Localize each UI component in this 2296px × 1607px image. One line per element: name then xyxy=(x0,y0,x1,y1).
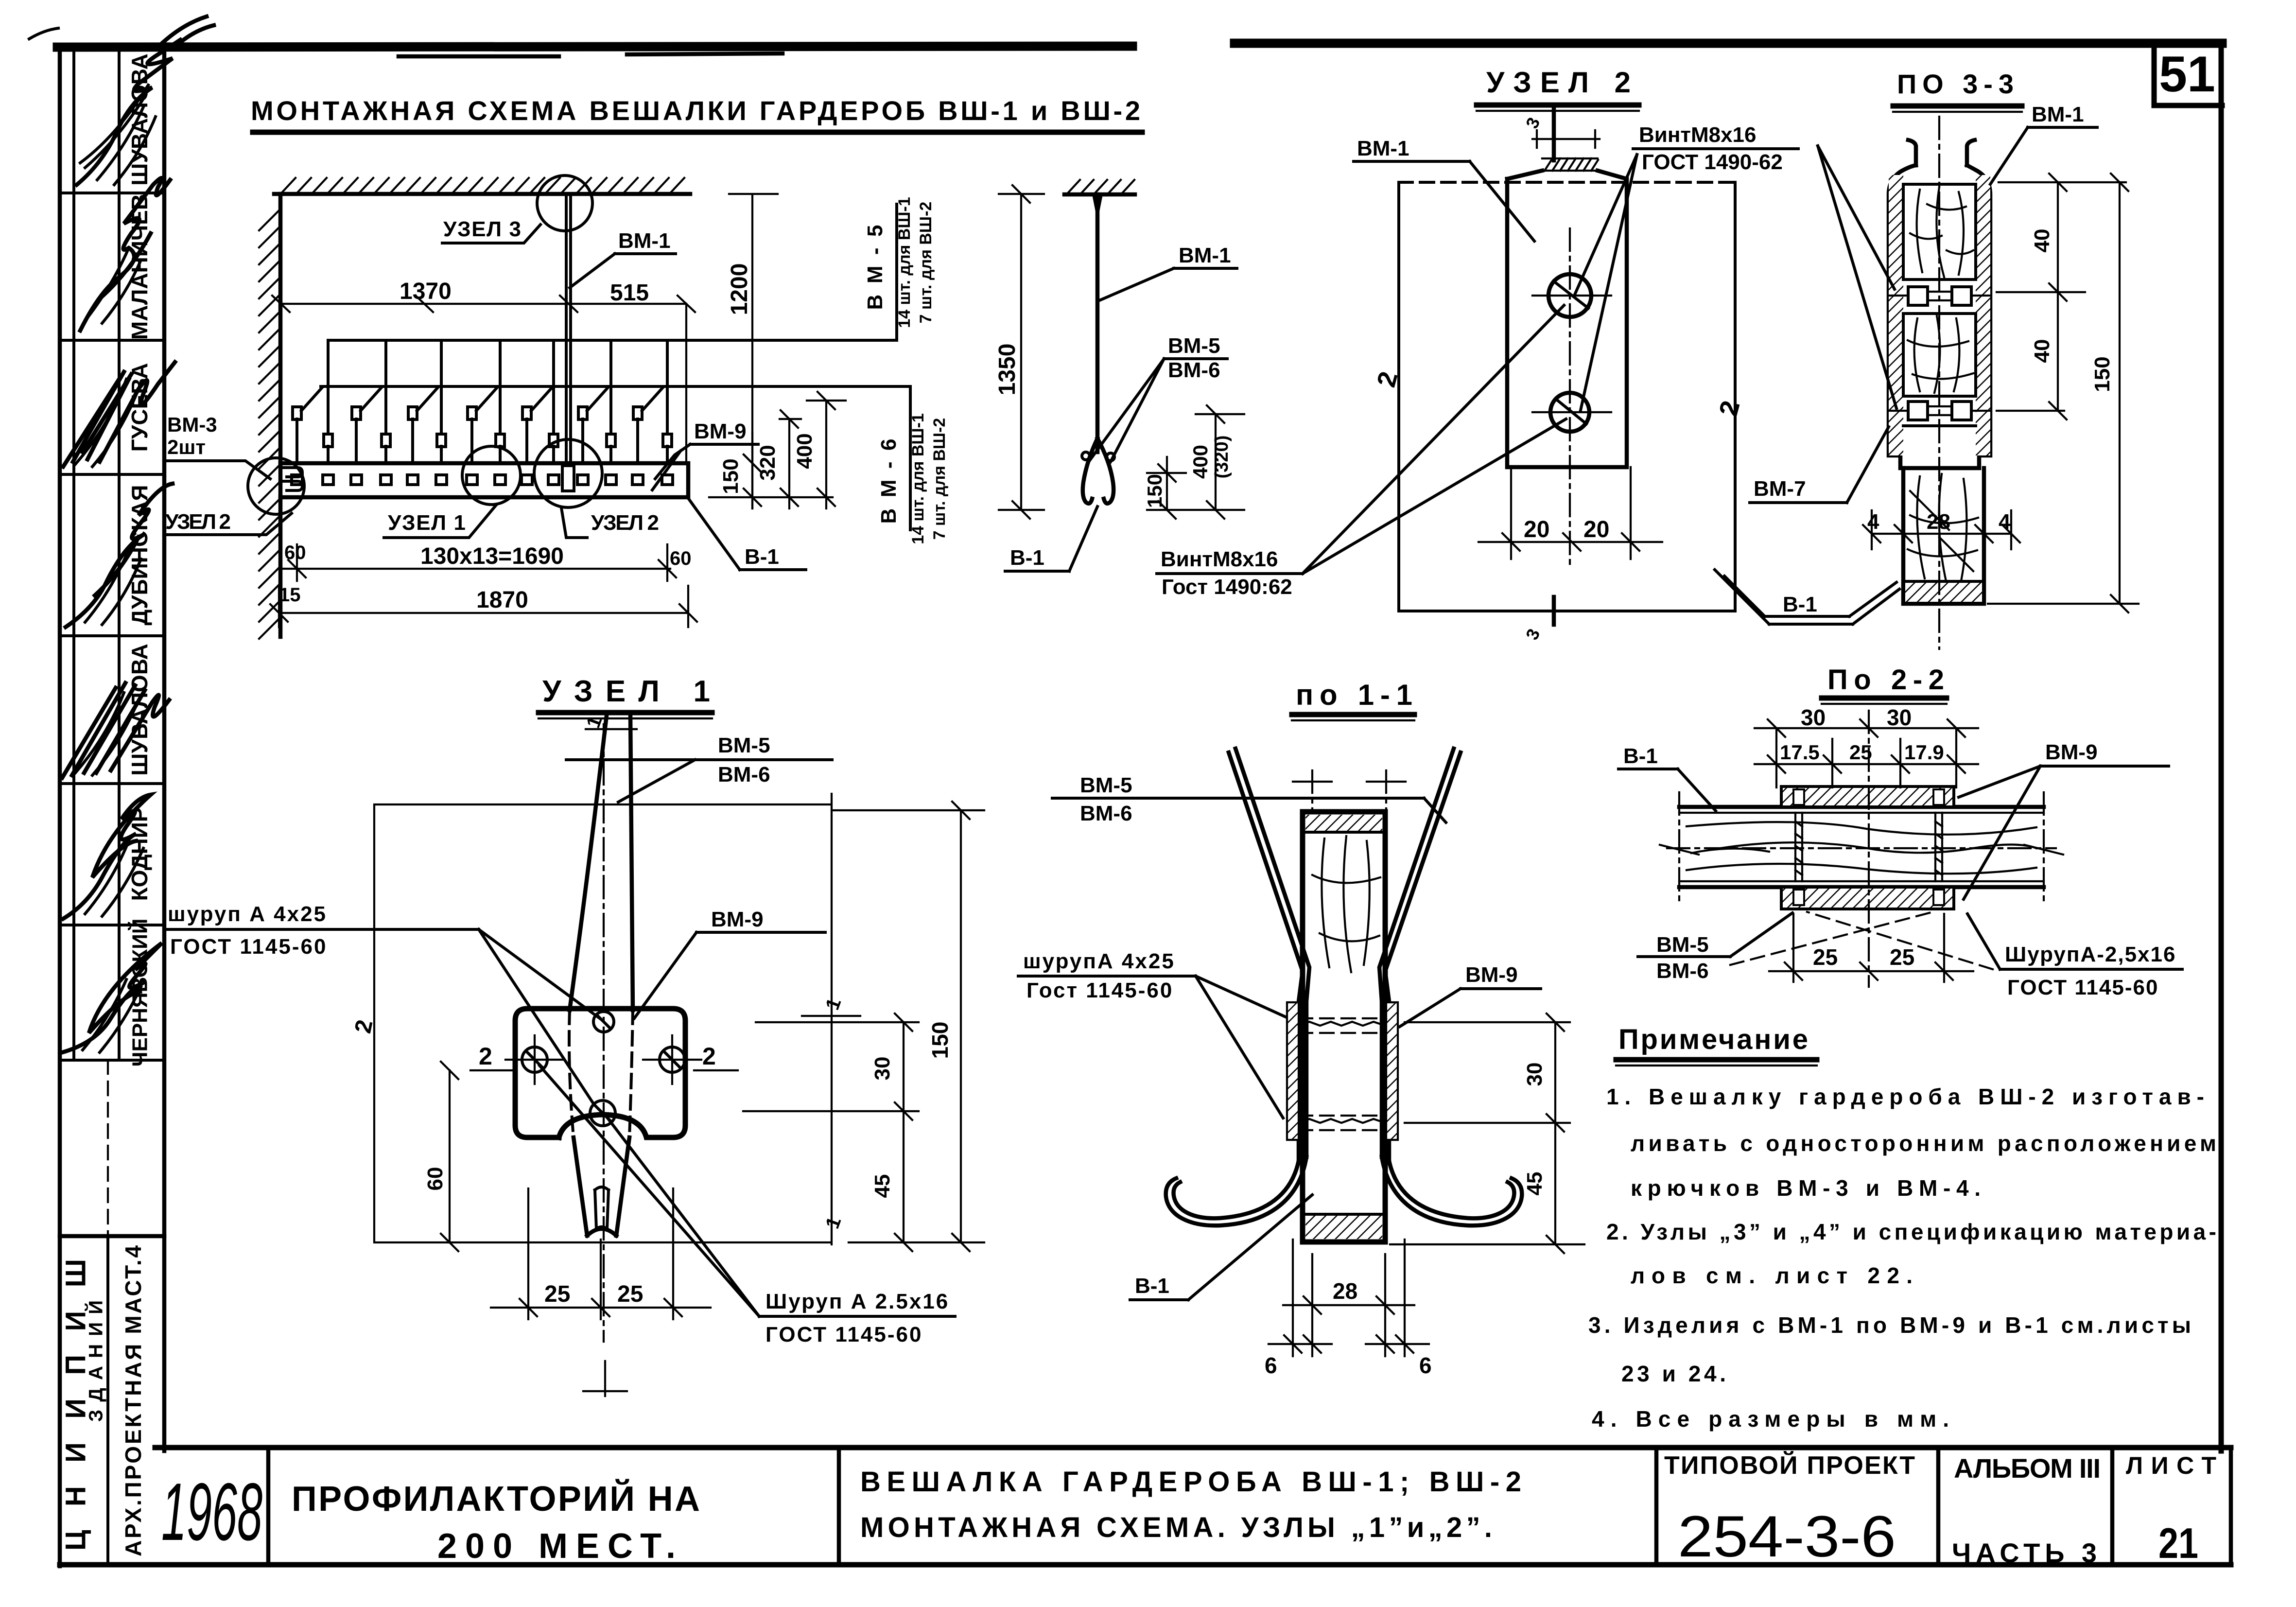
joint 1 with VM-7 bracket xyxy=(1889,279,1990,314)
svg-text:ливать с односторонним распол: ливать с односторонним расположением xyxy=(1631,1131,2216,1156)
svg-text:40: 40 xyxy=(2030,339,2054,363)
svg-text:30: 30 xyxy=(1523,1063,1547,1086)
dim 4/28/4 (po3-3) xyxy=(1863,496,2020,549)
leaders from shurup2.5 to plate screws xyxy=(539,1066,759,1316)
top plate VM-9 (hatched) xyxy=(1781,786,1954,807)
svg-text:УЗЕЛ 2: УЗЕЛ 2 xyxy=(165,510,231,534)
rotated label VM-5 quantity (right) xyxy=(863,197,935,328)
stray signature strokes top-left xyxy=(160,17,214,45)
svg-text:ВМ-1: ВМ-1 xyxy=(2032,103,2084,126)
signature row6 xyxy=(85,841,143,916)
svg-text:ВМ-5: ВМ-5 xyxy=(1168,334,1220,358)
svg-text:20: 20 xyxy=(1524,517,1549,542)
svg-text:25: 25 xyxy=(544,1281,570,1307)
svg-text:150: 150 xyxy=(719,458,743,494)
svg-text:400: 400 xyxy=(793,433,817,469)
hook slots in rail xyxy=(292,475,673,485)
dim 1870 xyxy=(270,586,697,627)
svg-text:17.9: 17.9 xyxy=(1904,741,1944,764)
diagonal ticks tall hooks to bus xyxy=(301,387,663,411)
channel wall hatch right xyxy=(1976,175,1990,455)
rail bottom hatched cap xyxy=(1305,1214,1382,1239)
svg-text:ВМ-5: ВМ-5 xyxy=(718,734,770,757)
svg-text:шуруп А 4х25: шуруп А 4х25 xyxy=(168,902,327,926)
signature row5 xyxy=(75,693,139,775)
svg-text:60: 60 xyxy=(284,542,306,563)
svg-text:ВМ-6: ВМ-6 xyxy=(718,763,770,786)
signature row1 xyxy=(97,107,156,185)
top section tick xyxy=(586,728,637,730)
svg-text:ВМ-1: ВМ-1 xyxy=(1357,137,1409,160)
svg-text:25: 25 xyxy=(617,1281,643,1307)
screw slots in plates xyxy=(1793,789,1944,905)
svg-text:28: 28 xyxy=(1333,1278,1357,1304)
svg-text:1350: 1350 xyxy=(994,344,1020,396)
svg-text:2: 2 xyxy=(702,1043,716,1070)
svg-text:1370: 1370 xyxy=(400,279,452,304)
hook blade outline xyxy=(570,716,633,1010)
svg-text:ГОСТ 1145-60: ГОСТ 1145-60 xyxy=(170,935,327,959)
svg-text:6: 6 xyxy=(1265,1353,1277,1378)
signature row7 xyxy=(83,979,141,1052)
svg-text:14 шт. для ВШ-1: 14 шт. для ВШ-1 xyxy=(909,413,927,544)
VM-9 plate strips in section xyxy=(1287,1002,1299,1140)
dim 515 xyxy=(568,304,686,462)
svg-text:ВМ-1: ВМ-1 xyxy=(618,229,671,253)
svg-text:АРХ.ПРОЕКТНАЯ МАСТ.4: АРХ.ПРОЕКТНАЯ МАСТ.4 xyxy=(121,1245,146,1556)
svg-text:25: 25 xyxy=(1849,741,1872,764)
svg-text:ТИПОВОЙ ПРОЕКТ: ТИПОВОЙ ПРОЕКТ xyxy=(1664,1451,1915,1480)
dim 1370 xyxy=(280,303,568,305)
ceiling hatch (rod view) xyxy=(1064,192,1135,197)
svg-text:2шт: 2шт xyxy=(167,436,206,458)
tall hooks VM-6 (heads) xyxy=(293,407,642,463)
svg-text:25: 25 xyxy=(1813,944,1838,970)
svg-text:150: 150 xyxy=(2090,356,2114,392)
svg-text:17.5: 17.5 xyxy=(1780,741,1820,764)
svg-text:крючков ВМ-3 и ВМ-4.: крючков ВМ-3 и ВМ-4. xyxy=(1631,1175,1981,1201)
dim 30 / 45 / 150 right side (uzel1) xyxy=(743,1013,984,1251)
svg-text:Гост 1490:62: Гост 1490:62 xyxy=(1162,575,1292,599)
section ticks above rail xyxy=(1312,770,1386,811)
dim 25/25 (uzel1) xyxy=(491,1188,711,1319)
svg-text:60: 60 xyxy=(670,548,692,569)
svg-text:(320): (320) xyxy=(1212,436,1232,479)
suspension rod VM-1 xyxy=(566,194,571,463)
short hooks VM-5 (heads) xyxy=(324,434,672,463)
centerline vertical po2-2 xyxy=(1868,711,1870,987)
svg-text:ВМ-9: ВМ-9 xyxy=(694,419,747,443)
svg-text:ВМ-6: ВМ-6 xyxy=(1656,959,1709,983)
dim 30/45 right (po1-1) xyxy=(1390,1013,1584,1253)
bracket plate VM-9 xyxy=(515,1009,685,1137)
sheet top border line xyxy=(57,43,2222,56)
bottom hatch cap xyxy=(1905,581,1982,602)
bottom line uzel2 xyxy=(1399,610,1735,612)
svg-text:ВМ-5: ВМ-5 xyxy=(1656,933,1709,957)
right hook arm xyxy=(1382,1157,1522,1225)
svg-text:1200: 1200 xyxy=(727,263,752,315)
svg-text:150: 150 xyxy=(927,1022,953,1059)
svg-text:УЗЕЛ 3: УЗЕЛ 3 xyxy=(443,217,521,241)
svg-text:130х13=1690: 130х13=1690 xyxy=(420,543,564,569)
section end ticks po2-2 xyxy=(1679,792,2044,902)
sheet right frame xyxy=(2219,43,2224,1451)
svg-text:15: 15 xyxy=(279,584,301,606)
dim 130x13=1690 xyxy=(283,544,676,581)
dim 1200 vertical xyxy=(729,194,778,508)
svg-text:ВинтМ8х16: ВинтМ8х16 xyxy=(1161,547,1278,571)
svg-text:ШурупА-2,5х16: ШурупА-2,5х16 xyxy=(2005,943,2176,966)
svg-text:ВМ-9: ВМ-9 xyxy=(1465,963,1518,987)
dim 25/25 bottom (po2-2) xyxy=(1769,914,1973,982)
screw lower (circle with slot) xyxy=(1550,393,1589,432)
dim 17.5/25/17.9 (po2-2) xyxy=(1755,739,1978,787)
svg-text:ВМ-9: ВМ-9 xyxy=(2045,740,2098,764)
svg-text:ГОСТ 1490-62: ГОСТ 1490-62 xyxy=(1642,150,1783,174)
plate centerline xyxy=(1569,228,1571,564)
svg-text:23 и 24.: 23 и 24. xyxy=(1621,1361,1726,1386)
leaders from bottom vint text to screws xyxy=(1303,305,1566,574)
top neck of profile xyxy=(1908,140,1975,165)
leader bus VM-5 xyxy=(328,204,897,340)
svg-text:ВинтМ8х16: ВинтМ8х16 xyxy=(1639,123,1756,147)
svg-text:6: 6 xyxy=(1419,1353,1432,1378)
reference frame uzel1 xyxy=(374,794,832,1244)
section 1 marks on right frame xyxy=(802,1015,860,1017)
right blade VM-6 xyxy=(1379,749,1461,1161)
dim 400(320) (rod) xyxy=(1147,405,1244,519)
section line 2 left xyxy=(1397,182,1400,611)
wall bracket shape in rail left end xyxy=(280,468,302,490)
ceiling line xyxy=(274,192,690,196)
svg-text:ВМ-9: ВМ-9 xyxy=(711,908,764,931)
svg-text:АЛЬБОМ III: АЛЬБОМ III xyxy=(1954,1453,2101,1484)
svg-text:60: 60 xyxy=(423,1167,447,1191)
leaders to screws xyxy=(479,929,602,1104)
svg-text:25: 25 xyxy=(1890,944,1914,970)
hook tip with slot xyxy=(587,1229,616,1236)
circle node Uzel2 mid xyxy=(534,439,602,507)
dim 150 (po3-3) xyxy=(1988,174,2139,612)
svg-text:150: 150 xyxy=(1143,474,1166,508)
leader bus VM-6 xyxy=(321,386,910,530)
svg-text:1968: 1968 xyxy=(161,1466,262,1557)
section line 2 right xyxy=(1734,182,1737,611)
svg-text:Шуруп А 2.5х16: Шуруп А 2.5х16 xyxy=(765,1290,949,1313)
svg-text:1870: 1870 xyxy=(476,587,528,613)
svg-text:45: 45 xyxy=(870,1174,894,1198)
rod attach slot xyxy=(562,466,574,491)
screws through rail (dashed) xyxy=(1299,1018,1386,1130)
signature row3 xyxy=(75,379,139,467)
dim 150 (rod) xyxy=(1147,457,1186,519)
svg-text:ПРОФИЛАКТОРИЙ НА: ПРОФИЛАКТОРИЙ НА xyxy=(292,1479,700,1519)
section mark 1 bottom xyxy=(583,1361,627,1396)
svg-text:20: 20 xyxy=(1583,517,1609,542)
svg-text:515: 515 xyxy=(610,280,649,306)
svg-text:шурупА 4х25: шурупА 4х25 xyxy=(1023,949,1175,973)
svg-text:МОНТАЖНАЯ СХЕМА ВЕШАЛКИ ГАР: МОНТАЖНАЯ СХЕМА ВЕШАЛКИ ГАРДЕРОБ ВШ-1 и … xyxy=(251,95,1140,126)
svg-text:2. Узлы „3” и „4” и спецификац: 2. Узлы „3” и „4” и спецификацию материа… xyxy=(1606,1219,2216,1244)
plate screws xyxy=(593,1012,614,1032)
svg-text:ВМ-1: ВМ-1 xyxy=(1179,244,1231,267)
svg-text:400: 400 xyxy=(1189,445,1212,479)
wall line xyxy=(278,194,283,637)
screw centerlines xyxy=(505,1035,701,1084)
svg-text:30: 30 xyxy=(1887,705,1912,730)
svg-text:УЗЕЛ 1: УЗЕЛ 1 xyxy=(388,511,466,535)
svg-text:В-1: В-1 xyxy=(1135,1274,1169,1298)
page number box 51 xyxy=(2154,46,2222,105)
dashed ceiling line through plate xyxy=(1399,181,1733,184)
rail B-1 front view xyxy=(280,463,688,497)
joint 2 with VM-7 bracket xyxy=(1889,396,1990,426)
svg-text:ГОСТ 1145-60: ГОСТ 1145-60 xyxy=(765,1323,922,1346)
svg-text:2: 2 xyxy=(479,1043,492,1070)
dim 40/40 (po3-3) xyxy=(1997,174,2126,419)
svg-text:УЗЕЛ 2: УЗЕЛ 2 xyxy=(591,511,659,535)
dim 30/30 top (po2-2) xyxy=(1755,719,1978,787)
circle node Uzel2 left xyxy=(248,458,304,514)
svg-text:ВМ-6: ВМ-6 xyxy=(1080,802,1132,825)
svg-text:254-3-6: 254-3-6 xyxy=(1678,1504,1896,1569)
bottom plate VM-9 (hatched) xyxy=(1781,887,1954,909)
dim 60 (uzel1) xyxy=(441,1062,458,1251)
rod VM-1 elevation xyxy=(1096,194,1100,452)
rail V-1 plan band xyxy=(1679,807,2044,887)
svg-text:Примечание: Примечание xyxy=(1618,1024,1808,1055)
screw threads through rail xyxy=(1795,813,1942,881)
wood grain in plan xyxy=(1687,822,2036,873)
svg-text:В-1: В-1 xyxy=(745,545,779,569)
svg-text:ВМ-7: ВМ-7 xyxy=(1754,477,1806,501)
leaders from vint text (top) to joints xyxy=(1818,146,1896,408)
svg-text:40: 40 xyxy=(2030,229,2054,253)
svg-text:7 шт. для ВШ-2: 7 шт. для ВШ-2 xyxy=(917,202,935,324)
center line po3-3 xyxy=(1938,117,1940,649)
svg-text:В-1: В-1 xyxy=(1010,546,1044,570)
svg-text:7 шт. для ВШ-2: 7 шт. для ВШ-2 xyxy=(930,418,949,540)
double hook at rod bottom xyxy=(1083,438,1113,504)
screw upper (circle with slot) xyxy=(1548,274,1591,317)
rod stub on top xyxy=(1552,108,1556,160)
circle node Uzel1 xyxy=(462,446,521,505)
left blade VM-5 xyxy=(1229,749,1309,1161)
svg-text:ВМ-6: ВМ-6 xyxy=(1168,358,1220,382)
ceiling hatch xyxy=(282,178,684,192)
svg-text:320: 320 xyxy=(756,445,780,480)
wood block mid (grain) xyxy=(1903,314,1976,396)
left hook arm xyxy=(1166,1157,1306,1225)
drop leaders to short hooks xyxy=(328,340,667,434)
svg-text:Гост 1145-60: Гост 1145-60 xyxy=(1026,978,1173,1002)
dim 20/20 (uzel2) xyxy=(1478,467,1662,559)
screw washer hatch zone xyxy=(1542,158,1598,171)
dim 6/6 bottom (po1-1) xyxy=(1269,1240,1429,1356)
svg-text:51: 51 xyxy=(2159,46,2215,103)
wood block top (grain) xyxy=(1903,184,1976,279)
svg-text:В-1: В-1 xyxy=(1783,593,1817,616)
wall hatch xyxy=(259,209,280,639)
svg-text:30: 30 xyxy=(1801,705,1826,730)
wood grain upper part xyxy=(1312,836,1380,972)
outer channel profile VM-1 wrap xyxy=(1889,165,1990,468)
dim 1350 xyxy=(999,185,1044,519)
rail V-1 side section xyxy=(1303,812,1385,1242)
dim 28 bottom (po1-1) xyxy=(1283,1254,1414,1356)
svg-text:30: 30 xyxy=(870,1057,894,1081)
channel wall hatch left xyxy=(1889,175,1903,455)
svg-text:ВМ-3: ВМ-3 xyxy=(167,413,217,436)
svg-text:ВМ-5: ВМ-5 xyxy=(1080,773,1132,797)
rail top hatched cap xyxy=(1305,815,1382,832)
svg-text:4: 4 xyxy=(1867,510,1879,534)
signature row2 xyxy=(85,248,141,323)
circle node Uzel3 xyxy=(537,175,592,231)
svg-text:4: 4 xyxy=(1999,510,2011,534)
dim 150/320/400 verticals right of rail xyxy=(709,392,846,508)
svg-text:28: 28 xyxy=(1927,510,1950,534)
rotated label VM-6 quantity (right) xyxy=(877,413,949,544)
svg-text:14 шт. для ВШ-1: 14 шт. для ВШ-1 xyxy=(895,197,914,328)
svg-text:ВЕШАЛКА ГАРДЕРОБА ВШ-1; ВШ-2: ВЕШАЛКА ГАРДЕРОБА ВШ-1; ВШ-2 xyxy=(860,1466,1521,1498)
rail wood below profile xyxy=(1903,468,1984,604)
left strip row dividers xyxy=(60,193,164,1236)
svg-text:45: 45 xyxy=(1523,1172,1547,1196)
sheet left frame column lines xyxy=(60,46,164,1566)
signature row4 xyxy=(85,549,141,625)
leaders from vint text to screws xyxy=(1575,155,1637,410)
svg-text:21: 21 xyxy=(2158,1519,2198,1567)
plate VM-1 detail xyxy=(1507,171,1627,467)
svg-text:200 МЕСТ.: 200 МЕСТ. xyxy=(437,1527,676,1566)
svg-text:В-1: В-1 xyxy=(1623,744,1658,768)
svg-text:ГОСТ 1145-60: ГОСТ 1145-60 xyxy=(2007,976,2158,999)
